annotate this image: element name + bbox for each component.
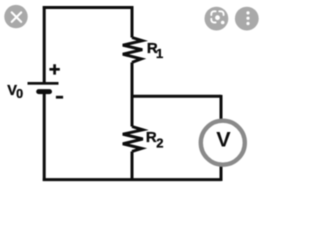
wire left vertical (top, source positive lead): [43, 6, 46, 82]
svg-text:V: V: [216, 126, 231, 151]
lens icon bottom-right dot: [221, 21, 225, 25]
wire R2 bottom lead: [131, 151, 134, 181]
lens icon viewfinder top-left bracket: [211, 11, 215, 15]
close button circle: [4, 5, 27, 28]
wire right branch top (to R1): [131, 6, 134, 37]
resistor R1: [123, 38, 143, 63]
plus sign label: [49, 64, 59, 74]
battery V0 top plate (positive, long thin): [28, 82, 59, 85]
battery V0 bottom plate (negative, short thick): [36, 89, 52, 94]
lens icon viewfinder bottom-left bracket: [211, 19, 215, 23]
wire bottom horizontal: [43, 178, 221, 181]
lens icon viewfinder top-right bracket: [219, 11, 223, 15]
minus sign label: [56, 96, 63, 99]
lens button circle: [205, 7, 229, 31]
wire middle vertical (R1 bottom to R2 top, through node): [131, 62, 134, 126]
wire left vertical (bottom, source negative lead): [43, 92, 46, 181]
lens icon center dot: [215, 15, 220, 20]
wire middle horizontal (node to voltmeter branch): [131, 95, 221, 98]
menu three-dot icon: [246, 11, 249, 25]
voltmeter circle: [201, 121, 245, 165]
wire voltmeter top lead: [220, 95, 223, 120]
wire voltmeter bottom lead: [220, 166, 223, 181]
wire top horizontal: [43, 6, 134, 9]
close button X icon: [12, 12, 22, 22]
menu button circle: [235, 7, 259, 31]
resistor R2: [123, 127, 143, 152]
